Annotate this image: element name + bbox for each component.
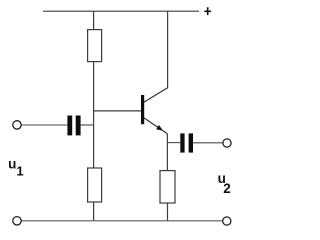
svg-text:2: 2	[223, 181, 231, 196]
wire: C2 to output terminal	[193, 142, 223, 144]
wire: base node to transistor base	[94, 110, 142, 112]
positive supply rail	[43, 10, 199, 12]
capacitor C1	[67, 116, 80, 136]
wire: rail to R1	[93, 11, 95, 30]
wire: emitter down to R3	[166, 134, 168, 171]
output terminal (right)	[223, 139, 231, 147]
terminal bottom left	[13, 217, 21, 225]
ground rail	[21, 220, 222, 222]
wire: R3 to ground rail	[167, 203, 169, 221]
transistor Q1	[141, 88, 168, 134]
svg-text:1: 1	[16, 164, 23, 179]
supply plus label	[204, 7, 211, 15]
resistor R1	[88, 30, 102, 62]
wire: collector to supply rail	[167, 11, 169, 88]
wire: C1 to base node	[81, 124, 94, 126]
svg-text:u: u	[8, 157, 16, 172]
wire: emitter node to C2	[167, 142, 180, 144]
wire: input terminal to C1	[21, 124, 67, 126]
terminal bottom right	[223, 217, 231, 225]
resistor R2	[88, 168, 102, 202]
wire: R1 to R2 (base node column)	[93, 62, 95, 168]
resistor R3	[160, 171, 175, 203]
capacitor C2	[180, 133, 193, 152]
input terminal (top left)	[13, 121, 21, 129]
wire: R2 to ground rail	[93, 202, 95, 221]
